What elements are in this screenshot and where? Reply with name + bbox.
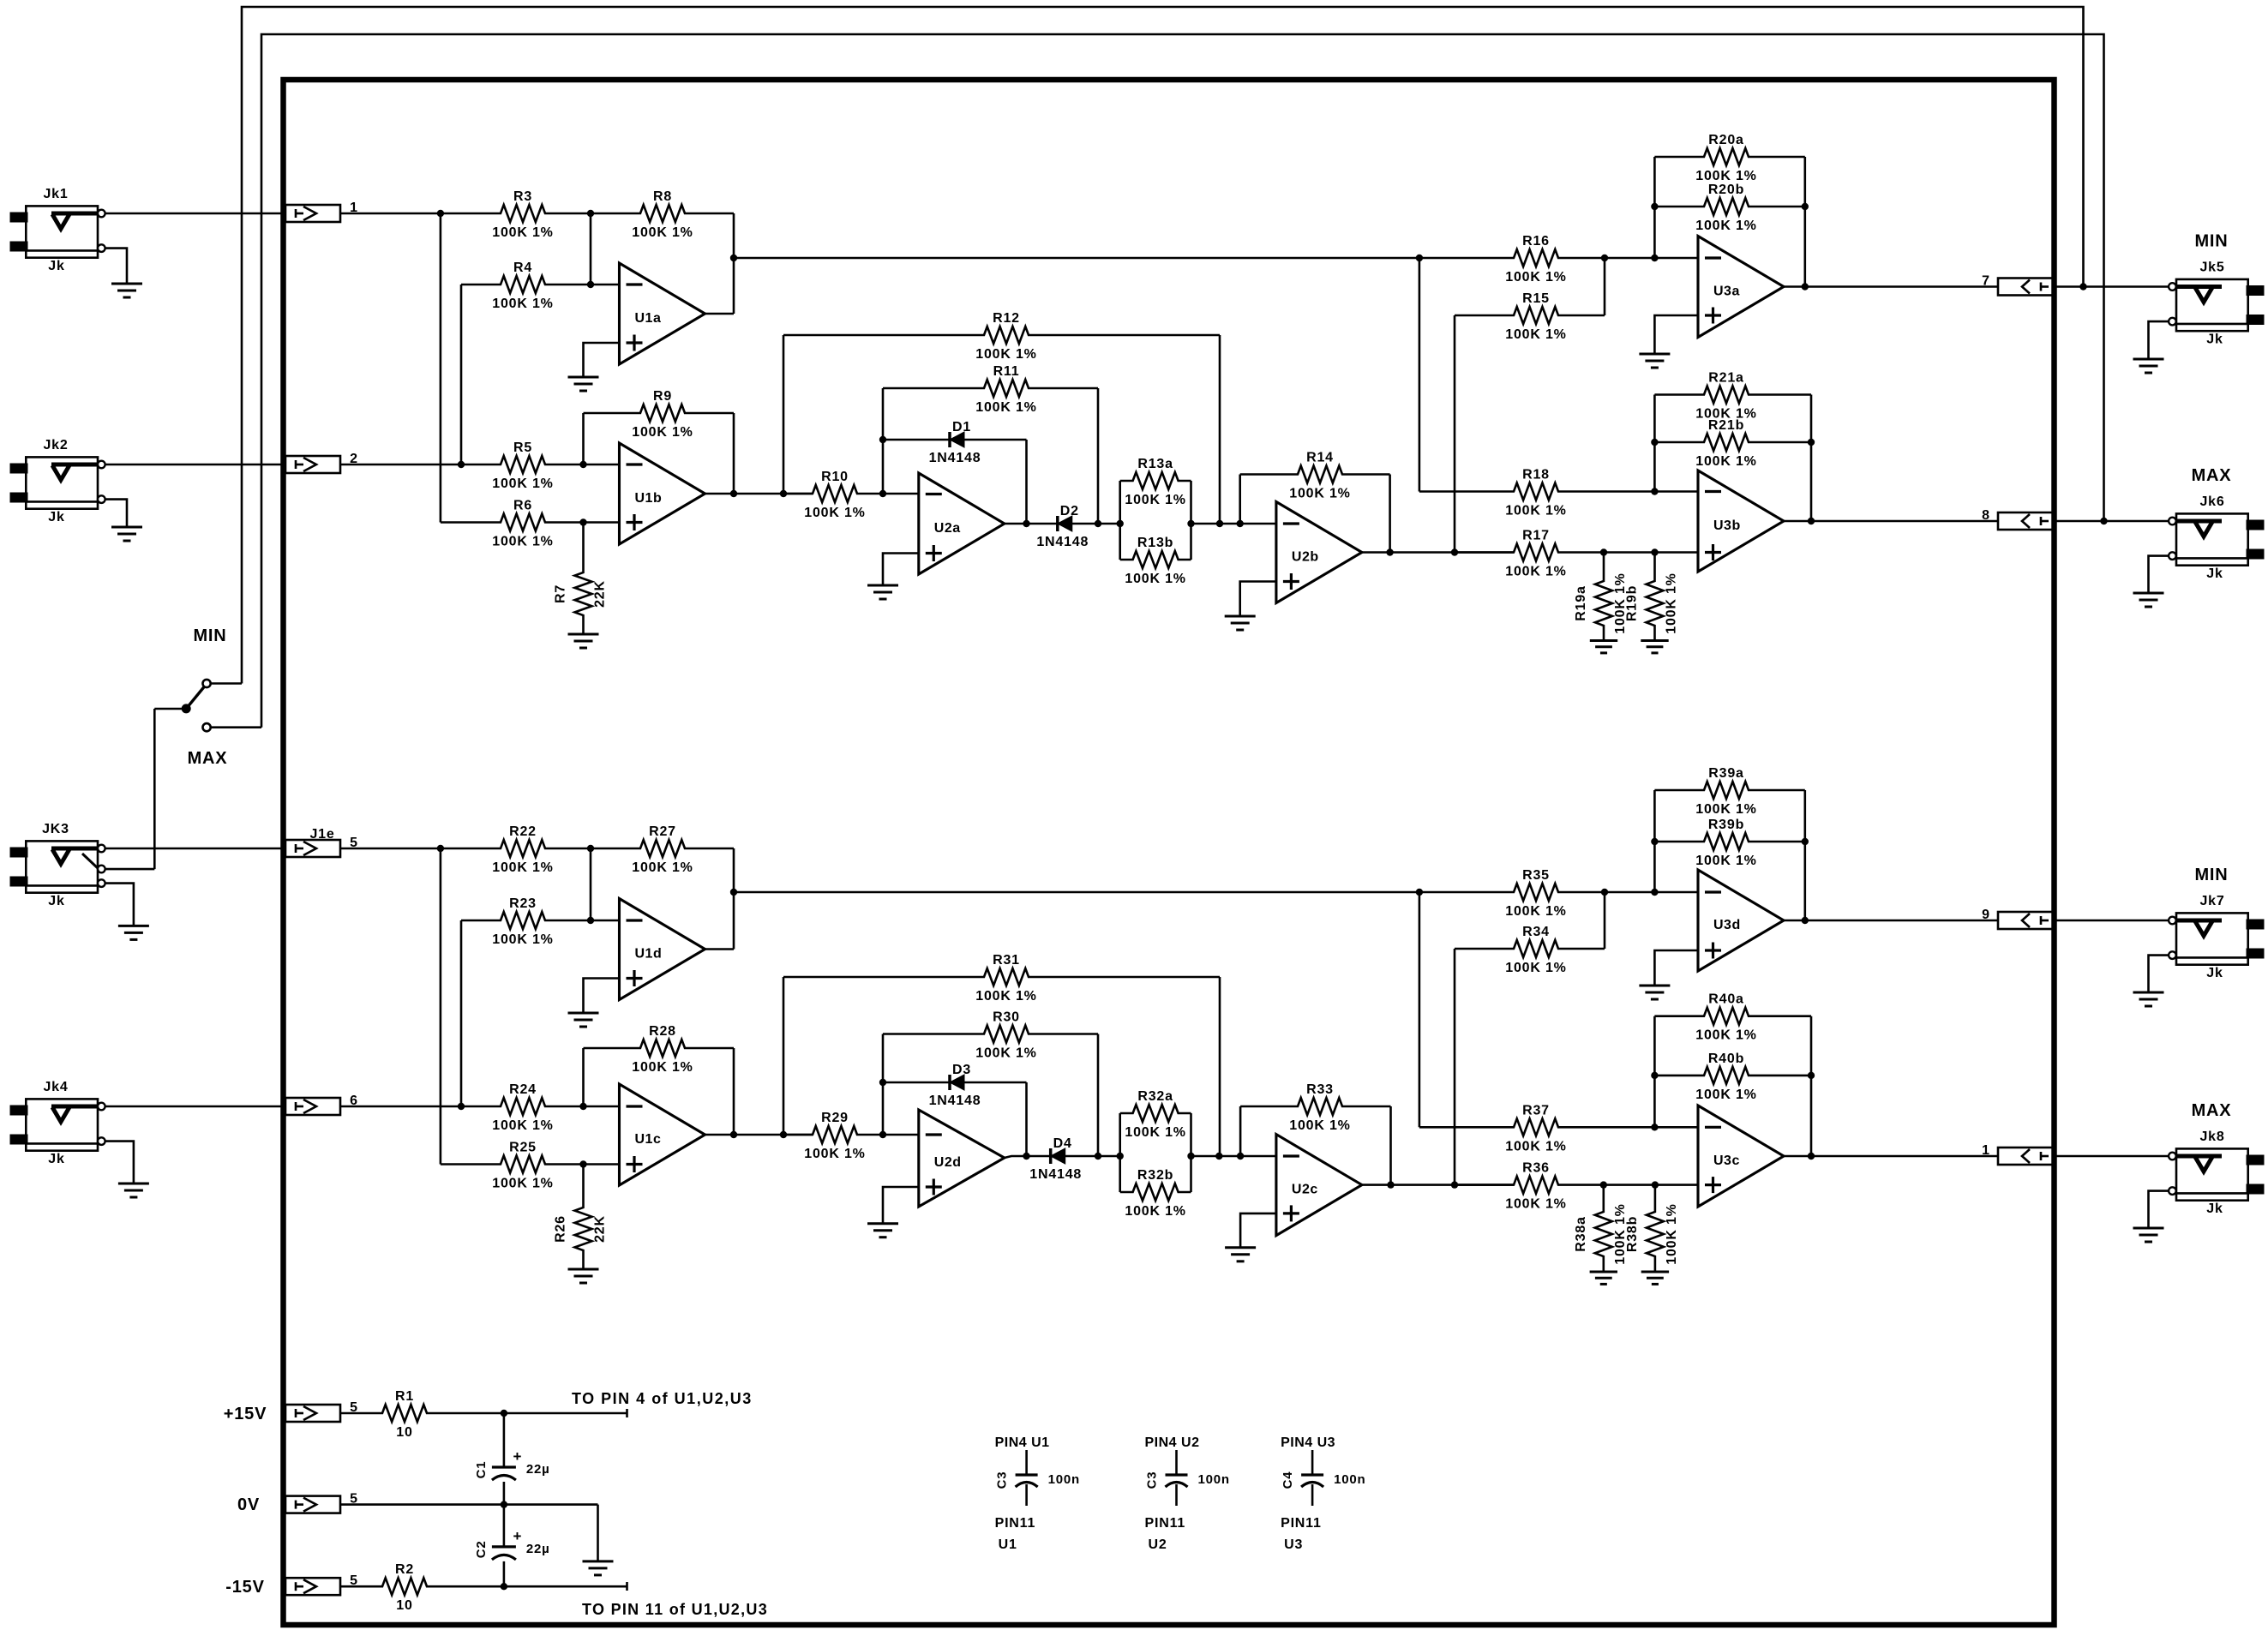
jack Jk8 MAX output [2176, 1148, 2248, 1200]
svg-text:100K 1%: 100K 1% [632, 1060, 693, 1075]
node U1c output/R31 [780, 1131, 787, 1138]
svg-text:R18: R18 [1522, 468, 1550, 482]
svg-text:100K 1%: 100K 1% [1289, 1118, 1350, 1133]
node MIN bus to R16/R18 [1416, 255, 1423, 261]
wire 0V to ground [597, 1505, 599, 1561]
port 1 [285, 205, 340, 222]
svg-text:100K 1%: 100K 1% [1505, 961, 1566, 975]
wire Jk4 sleeve to ground [105, 1142, 134, 1184]
svg-text:R2: R2 [395, 1562, 414, 1577]
resistor R11 feedback [883, 380, 1098, 397]
node U3c output/R40 [1808, 1153, 1815, 1160]
svg-text:R9: R9 [653, 389, 672, 404]
op-amp U1b [620, 443, 705, 544]
ground [118, 1183, 149, 1185]
wire R11 right vertical [1097, 388, 1100, 524]
svg-text:100K 1%: 100K 1% [1505, 1139, 1566, 1154]
svg-text:U3: U3 [1284, 1537, 1303, 1552]
svg-text:C3: C3 [995, 1471, 1010, 1489]
svg-text:R15: R15 [1522, 291, 1550, 306]
port 8 [1998, 512, 2055, 530]
op-amp U2a [919, 473, 1005, 574]
wire port 8 to Jk6 [2055, 520, 2169, 523]
wire D2 to R13 pair [1072, 523, 1120, 525]
wire R34 left vertical [1454, 949, 1456, 1185]
wire R9 left vertical [582, 413, 585, 464]
ground [568, 633, 599, 636]
svg-text:C4: C4 [1281, 1471, 1295, 1489]
wire MIN bus [734, 257, 1419, 260]
svg-text:C1: C1 [474, 1461, 489, 1479]
node 0V rail [501, 1501, 507, 1507]
svg-text:Jk: Jk [48, 1152, 64, 1166]
node port6 tap [458, 1103, 465, 1110]
svg-text:PIN4 U3: PIN4 U3 [1281, 1435, 1335, 1450]
ground [1590, 639, 1617, 642]
svg-text:MIN: MIN [193, 626, 226, 645]
port 6 [285, 1098, 340, 1115]
resistor R20a feedback U3a [1654, 148, 1804, 165]
svg-text:100K 1%: 100K 1% [492, 1118, 553, 1133]
resistor R19a [1595, 553, 1612, 641]
svg-text:10: 10 [396, 1425, 412, 1440]
wire R4 tap from port2 [460, 285, 463, 464]
wire R28 left vertical [582, 1048, 585, 1106]
svg-text:U2c: U2c [1292, 1183, 1318, 1197]
svg-text:100K 1%: 100K 1% [492, 225, 553, 240]
resistor R25 [441, 1156, 584, 1173]
wire U1c output [705, 1134, 813, 1136]
svg-text:100K 1%: 100K 1% [492, 932, 553, 947]
resistor R30 feedback [883, 1026, 1098, 1043]
wire switch MAX throw [211, 726, 261, 728]
node D2/R11 [1095, 520, 1101, 527]
wire U3a non-inverting input to ground [1654, 315, 1698, 354]
svg-text:D1: D1 [952, 420, 971, 434]
ground [2133, 592, 2164, 595]
jack Jk4 [26, 1099, 98, 1150]
svg-text:1N4148: 1N4148 [1036, 535, 1089, 549]
svg-text:R7: R7 [554, 584, 568, 603]
wire U2d output [1005, 1156, 1058, 1158]
node U3d output/R39 [1802, 917, 1809, 924]
resistor R22 [441, 840, 591, 857]
svg-text:8: 8 [1982, 508, 1990, 523]
svg-text:U1: U1 [999, 1537, 1017, 1552]
svg-text:100n: 100n [1198, 1472, 1230, 1487]
wire U2c output to R36 [1362, 1184, 1514, 1186]
node R13 right [1187, 520, 1194, 527]
svg-text:100K 1%: 100K 1% [1125, 1204, 1185, 1219]
svg-text:100K 1%: 100K 1% [492, 476, 553, 491]
svg-text:PIN4 U1: PIN4 U1 [995, 1435, 1050, 1450]
svg-text:Jk: Jk [2206, 966, 2223, 980]
svg-text:100K 1%: 100K 1% [1695, 219, 1756, 233]
wire R24 junction to U1c inverting input [584, 1106, 620, 1108]
svg-text:R38b: R38b [1625, 1216, 1640, 1252]
wire R9 right vertical [733, 413, 735, 494]
resistor R39b feedback U3d [1654, 833, 1804, 850]
svg-text:R12: R12 [993, 311, 1020, 326]
node R29/R30 junction [879, 1131, 886, 1138]
svg-text:U2d: U2d [934, 1155, 962, 1170]
resistor R31 feedback [783, 968, 1220, 986]
wire MIN feedback loop (port 7 to switch MIN throw) [242, 7, 2084, 684]
wire R5 junction to U1b inverting input [584, 464, 620, 466]
resistor R21a feedback U3b [1654, 387, 1811, 404]
svg-text:R21b: R21b [1708, 418, 1744, 433]
wire R34 right vertical to MIN2 bus [1604, 892, 1606, 949]
wire U1a non-inverting input to ground [584, 343, 620, 377]
ground [1590, 1271, 1617, 1273]
wire R21 right vertical [1810, 395, 1813, 522]
node U3b output/R21 [1808, 518, 1815, 524]
svg-text:R29: R29 [821, 1111, 849, 1125]
resistor R8 [591, 205, 734, 222]
node R36/R38a [1600, 1181, 1607, 1188]
wire R20 left vertical [1653, 157, 1656, 258]
svg-text:R16: R16 [1522, 234, 1550, 249]
node R32 right [1187, 1153, 1194, 1160]
wire U2a non-inverting input to ground [883, 554, 919, 586]
capacitor C2 22u [503, 1505, 506, 1547]
svg-text:R26: R26 [554, 1215, 568, 1243]
wire switch pole [154, 708, 186, 710]
wire U3d output to port 9 [1784, 920, 1998, 922]
wire R15 right vertical to MIN bus [1604, 258, 1606, 315]
svg-text:Jk2: Jk2 [43, 438, 68, 452]
resistor R9 feedback U1b [584, 405, 735, 422]
svg-text:22µ: 22µ [526, 1542, 550, 1556]
svg-text:100K 1%: 100K 1% [1695, 1088, 1756, 1102]
resistor R26 22K [575, 1165, 592, 1270]
wire R31 left vertical [783, 977, 785, 1135]
node U1b output/R12 [780, 490, 787, 497]
svg-text:100K 1%: 100K 1% [492, 1177, 553, 1191]
node R34/MIN2 bus [1601, 889, 1608, 896]
svg-text:R27: R27 [649, 824, 676, 839]
ground [1225, 1246, 1256, 1249]
svg-text:Jk4: Jk4 [43, 1080, 68, 1094]
wire MIN tap down to R18 [1419, 258, 1421, 492]
svg-text:U2: U2 [1149, 1537, 1167, 1552]
svg-text:U2b: U2b [1292, 550, 1319, 565]
svg-text:0V: 0V [237, 1495, 260, 1514]
op-amp U3c [1698, 1106, 1784, 1207]
resistor R34 [1455, 940, 1605, 957]
svg-text:R35: R35 [1522, 868, 1550, 883]
wire R28 right vertical [733, 1048, 735, 1135]
svg-text:R1: R1 [395, 1389, 414, 1404]
wire JK3 sleeve to ground [105, 884, 134, 926]
svg-text:1N4148: 1N4148 [929, 451, 981, 465]
svg-text:U1b: U1b [635, 491, 663, 506]
svg-text:22K: 22K [593, 1215, 608, 1243]
svg-text:R21a: R21a [1708, 371, 1743, 386]
svg-text:R28: R28 [649, 1024, 676, 1039]
svg-text:U1c: U1c [635, 1132, 662, 1147]
wire R6 to U1b non-inverting input [584, 521, 620, 524]
svg-text:100K 1%: 100K 1% [632, 225, 693, 240]
svg-text:Jk: Jk [48, 510, 64, 524]
svg-text:MIN: MIN [2194, 232, 2228, 251]
svg-text:D2: D2 [1060, 504, 1079, 518]
node U2d output/D3 [1023, 1153, 1029, 1160]
resistor R19b [1647, 553, 1664, 641]
wire JK3 switch contact to MIN/MAX switch pole [105, 868, 155, 871]
resistor R15 [1455, 307, 1605, 324]
node port1 tap [437, 210, 444, 217]
wire tap down to R6 [440, 213, 442, 523]
svg-text:R24: R24 [509, 1082, 537, 1097]
svg-text:100K 1%: 100K 1% [1695, 454, 1756, 469]
wire Jk4 tip to port 6 [105, 1106, 285, 1108]
resistor R18 [1419, 483, 1698, 500]
svg-text:Jk: Jk [2206, 333, 2223, 347]
node U2a output/D1 [1023, 520, 1029, 527]
node U3a output/R20 [1802, 283, 1809, 290]
wire U1a output [705, 313, 735, 315]
border frame [284, 80, 2055, 1625]
svg-text:100K 1%: 100K 1% [492, 535, 553, 549]
svg-text:100K 1%: 100K 1% [1695, 802, 1756, 817]
svg-text:R5: R5 [513, 440, 532, 455]
svg-text:J1e: J1e [309, 827, 334, 842]
node R22/R27 junction [587, 845, 594, 852]
wire R25 to U1c non-inverting input [584, 1163, 620, 1166]
wire Jk1 tip to port 1 [105, 213, 285, 215]
node +15V rail [501, 1410, 507, 1417]
node port2 tap [458, 461, 465, 468]
resistor R28 feedback U1c [584, 1040, 735, 1057]
wire R12 right vertical [1219, 335, 1221, 524]
svg-text:Jk7: Jk7 [2199, 894, 2224, 908]
op-amp U3a [1698, 237, 1784, 338]
wire +15V rail to pin4 [504, 1412, 627, 1415]
svg-text:Jk1: Jk1 [43, 187, 68, 201]
wire R11 left vertical [882, 388, 885, 494]
resistor R37 [1419, 1118, 1698, 1136]
wire junction down to U1d inverting input [590, 848, 592, 920]
node R15 tap [1451, 548, 1458, 555]
svg-text:100K 1%: 100K 1% [1665, 1203, 1679, 1264]
wire R39 right vertical [1804, 790, 1807, 920]
svg-text:C2: C2 [474, 1541, 489, 1559]
svg-text:R38a: R38a [1574, 1216, 1588, 1251]
ground [1641, 1271, 1669, 1273]
node R18/R21 [1651, 488, 1658, 494]
svg-text:R23: R23 [509, 896, 537, 911]
svg-text:R40b: R40b [1708, 1052, 1744, 1066]
node R37/R40 [1651, 1124, 1658, 1130]
wire R20 right vertical [1804, 157, 1807, 287]
wire Jk2 tip to port 2 [105, 464, 285, 466]
resistor R5 [461, 456, 584, 473]
node U2c output/R33 [1387, 1181, 1394, 1188]
wire U1d output [705, 948, 735, 950]
wire U1a output up to R8 [733, 213, 735, 314]
wire -15V rail to pin11 [504, 1585, 627, 1588]
wire R12 left vertical [783, 335, 785, 494]
op-amp U1a [620, 263, 705, 364]
wire R39 left vertical [1653, 790, 1656, 892]
node R5/R9 junction [579, 461, 586, 468]
wire MIN2 bus [734, 891, 1419, 894]
wire R14 left vertical [1239, 475, 1241, 524]
wire R23 tap from port6 [460, 920, 463, 1106]
svg-text:100K 1%: 100K 1% [975, 347, 1036, 362]
resistor R16 [1419, 249, 1655, 267]
svg-text:100K 1%: 100K 1% [975, 400, 1036, 415]
svg-text:R33: R33 [1306, 1082, 1334, 1097]
svg-text:R20b: R20b [1708, 183, 1744, 197]
svg-text:MIN: MIN [2194, 866, 2228, 884]
resistor R33 feedback [1240, 1098, 1390, 1115]
diode D3 1N4148 [883, 1082, 950, 1084]
wire U2b output to R17 [1362, 551, 1514, 554]
wire right port 1 to Jk8 [2055, 1155, 2169, 1158]
svg-text:R36: R36 [1522, 1161, 1550, 1176]
ground [111, 526, 142, 529]
ground [2133, 992, 2164, 994]
wire MAX feedback loop (port 8 to switch MAX throw) [261, 34, 2104, 728]
resistor R14 feedback [1240, 466, 1390, 483]
svg-text:R8: R8 [653, 189, 672, 204]
svg-text:Jk5: Jk5 [2199, 261, 2224, 275]
ground [568, 1012, 599, 1015]
node R12/U2b [1216, 520, 1223, 527]
op-amp U3b [1698, 470, 1784, 572]
jack Jk2 [26, 457, 98, 508]
svg-text:100K 1%: 100K 1% [632, 860, 693, 875]
wire U2c non-inverting input to ground [1240, 1214, 1276, 1248]
resistor R6 [441, 514, 584, 531]
svg-text:100n: 100n [1048, 1472, 1080, 1487]
op-amp U1c [620, 1084, 705, 1185]
svg-text:D3: D3 [952, 1063, 971, 1077]
svg-text:U2a: U2a [934, 521, 961, 536]
svg-text:TO PIN 4 of U1,U2,U3: TO PIN 4 of U1,U2,U3 [572, 1390, 753, 1407]
svg-text:R6: R6 [513, 499, 532, 513]
svg-text:100K 1%: 100K 1% [1125, 1125, 1185, 1140]
wire port6 to R24 [340, 1106, 461, 1108]
diode D4 1N4148 [1049, 1148, 1053, 1164]
svg-text:100K 1%: 100K 1% [1695, 1028, 1756, 1043]
svg-text:MAX: MAX [188, 749, 228, 768]
resistor R7 22K [575, 523, 592, 635]
ground [1639, 985, 1670, 987]
svg-text:R13b: R13b [1137, 536, 1173, 550]
resistor R24 [461, 1098, 584, 1115]
svg-text:+: + [513, 1448, 523, 1465]
node D3 tap [879, 1079, 886, 1086]
svg-text:Jk: Jk [2206, 1202, 2223, 1216]
capacitor C1 22u [503, 1413, 506, 1467]
ground [2133, 358, 2164, 361]
svg-text:100K 1%: 100K 1% [1125, 493, 1185, 507]
node R34 tap [1451, 1181, 1458, 1188]
ground [568, 376, 599, 379]
ground [111, 283, 142, 285]
svg-text:PIN11: PIN11 [995, 1516, 1036, 1531]
wire U2b non-inverting input to ground [1240, 582, 1276, 617]
svg-text:MAX: MAX [2192, 466, 2232, 485]
svg-text:1N4148: 1N4148 [929, 1094, 981, 1108]
wire switch pole vertical [153, 709, 156, 869]
svg-text:U3c: U3c [1713, 1154, 1740, 1168]
svg-text:R17: R17 [1522, 529, 1550, 543]
wire Jk1 sleeve to ground [105, 249, 127, 284]
svg-text:R39b: R39b [1708, 818, 1744, 832]
svg-text:Jk8: Jk8 [2199, 1130, 2224, 1144]
diode D2 1N4148 [1056, 516, 1059, 531]
svg-text:R11: R11 [993, 364, 1020, 379]
svg-text:Jk: Jk [2206, 566, 2223, 581]
node R24/R28 junction [579, 1103, 586, 1110]
resistor R32b [1190, 1113, 1192, 1192]
resistor R13b [1190, 481, 1192, 560]
wire R30 left vertical [882, 1034, 885, 1136]
node R14/U2b [1237, 520, 1244, 527]
wire R21 left vertical [1653, 395, 1656, 492]
wire U1d non-inverting input to ground [584, 979, 620, 1014]
svg-text:100K 1%: 100K 1% [1125, 572, 1185, 586]
wire U3c output to port 1 (right) [1784, 1155, 1998, 1158]
svg-text:R30: R30 [993, 1010, 1020, 1025]
wire U1d output up to R27 [733, 848, 735, 950]
svg-text:R22: R22 [509, 824, 537, 839]
resistor R13a [1119, 481, 1121, 560]
svg-text:R40a: R40a [1708, 992, 1743, 1007]
node R33/U2c [1237, 1153, 1244, 1160]
wire switch MIN throw [211, 682, 242, 685]
node U2b output/R14 [1386, 548, 1393, 555]
wire Jk7 sleeve to ground [2149, 956, 2169, 992]
wire R33 right vertical [1389, 1106, 1392, 1185]
node R25/R26 junction [579, 1160, 586, 1167]
wire R31 right vertical [1219, 977, 1221, 1156]
wire port1 to R3 [340, 213, 441, 215]
resistor R32a [1119, 1113, 1121, 1192]
svg-text:R19b: R19b [1625, 585, 1640, 621]
node R6/R7 junction [579, 518, 586, 525]
svg-text:R3: R3 [513, 189, 532, 204]
resistor R38b [1647, 1185, 1664, 1272]
wire D3 to right vertical [964, 1082, 1027, 1084]
jack JK3 (switched) [26, 841, 98, 892]
wire D4 to R32 pair [1065, 1155, 1120, 1158]
node port5 tap [437, 845, 444, 852]
node R31/U2c [1215, 1153, 1222, 1160]
node R13 left [1117, 520, 1124, 527]
node U1c output/R28 [730, 1131, 737, 1138]
svg-text:-15V: -15V [225, 1578, 264, 1597]
wire Jk8 sleeve to ground [2149, 1191, 2169, 1228]
wire R33 left vertical [1239, 1106, 1242, 1156]
wire R13 to U2b inverting input [1191, 523, 1276, 525]
svg-text:+15V: +15V [224, 1405, 267, 1423]
port 5 J1e [285, 840, 340, 857]
svg-text:R19a: R19a [1574, 585, 1588, 620]
wire port2 to R5 [340, 464, 461, 466]
svg-text:100K 1%: 100K 1% [1505, 504, 1566, 518]
node R3/R8 junction [587, 210, 594, 217]
svg-text:R4: R4 [513, 261, 532, 275]
jack Jk1 [26, 206, 98, 257]
svg-text:10: 10 [396, 1598, 412, 1613]
svg-text:PIN11: PIN11 [1281, 1516, 1322, 1531]
jack Jk6 MAX output [2176, 513, 2248, 565]
